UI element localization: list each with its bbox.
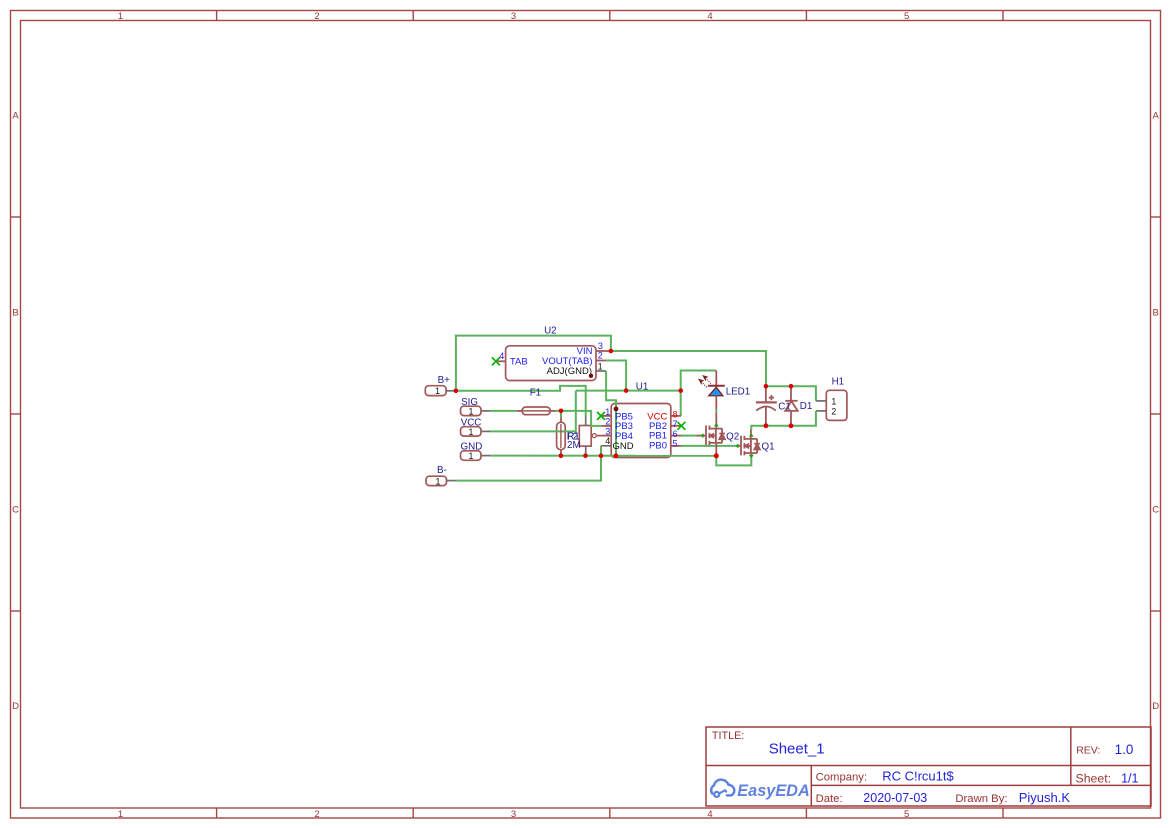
svg-text:Sheet:: Sheet: — [1076, 772, 1112, 786]
svg-text:B+: B+ — [438, 375, 451, 386]
svg-text:Drawn By:: Drawn By: — [955, 793, 1007, 805]
svg-text:REV:: REV: — [1076, 744, 1100, 756]
svg-text:D1: D1 — [800, 401, 813, 412]
svg-text:GND: GND — [461, 442, 483, 453]
svg-text:1: 1 — [436, 476, 441, 486]
svg-text:4: 4 — [707, 11, 712, 22]
svg-text:LED1: LED1 — [726, 387, 751, 398]
svg-text:C1: C1 — [778, 402, 791, 413]
svg-text:B: B — [1153, 308, 1159, 319]
svg-text:2: 2 — [598, 350, 603, 360]
svg-text:H1: H1 — [832, 377, 845, 388]
svg-text:EasyEDA: EasyEDA — [737, 782, 809, 800]
svg-text:Q2: Q2 — [726, 432, 739, 443]
svg-text:2: 2 — [605, 417, 610, 427]
svg-text:1.0: 1.0 — [1115, 742, 1134, 757]
svg-text:B: B — [12, 308, 18, 319]
svg-text:Q1: Q1 — [762, 441, 775, 452]
svg-text:5: 5 — [904, 11, 909, 22]
svg-text:VCC: VCC — [647, 411, 667, 422]
svg-text:1/1: 1/1 — [1121, 772, 1138, 786]
svg-text:3: 3 — [511, 11, 516, 22]
svg-text:4: 4 — [605, 436, 610, 446]
svg-text:Sheet_1: Sheet_1 — [769, 740, 825, 757]
svg-text:ADJ(GND): ADJ(GND) — [547, 366, 592, 377]
svg-text:TAB: TAB — [510, 356, 528, 367]
svg-text:A: A — [1153, 111, 1160, 122]
svg-text:3: 3 — [605, 426, 610, 436]
svg-text:5: 5 — [673, 438, 678, 448]
svg-text:C: C — [12, 504, 19, 515]
svg-text:PB0: PB0 — [649, 440, 667, 451]
svg-text:B-: B- — [437, 465, 447, 476]
svg-text:GND: GND — [613, 441, 634, 452]
svg-text:4: 4 — [707, 809, 712, 820]
svg-text:4: 4 — [499, 351, 504, 361]
svg-text:2: 2 — [314, 11, 319, 22]
svg-text:8: 8 — [673, 409, 678, 419]
svg-text:VCC: VCC — [461, 418, 482, 429]
svg-text:1: 1 — [118, 809, 123, 820]
svg-text:U2: U2 — [544, 326, 557, 337]
svg-text:5: 5 — [904, 809, 909, 820]
svg-text:TITLE:: TITLE: — [712, 730, 744, 742]
svg-text:6: 6 — [673, 429, 678, 439]
svg-text:2M: 2M — [567, 440, 581, 451]
svg-text:SIG: SIG — [461, 397, 478, 408]
svg-text:2: 2 — [831, 406, 836, 416]
svg-text:1: 1 — [605, 407, 610, 417]
svg-text:D: D — [12, 701, 19, 712]
svg-text:1: 1 — [598, 362, 603, 372]
svg-text:U1: U1 — [636, 381, 649, 392]
svg-text:A: A — [12, 111, 19, 122]
svg-text:Piyush.K: Piyush.K — [1019, 790, 1071, 805]
svg-text:D: D — [1152, 701, 1159, 712]
svg-text:1: 1 — [831, 396, 836, 406]
svg-text:3: 3 — [511, 809, 516, 820]
svg-text:7: 7 — [673, 419, 678, 429]
svg-text:1: 1 — [118, 11, 123, 22]
svg-text:1: 1 — [435, 386, 440, 396]
svg-text:2: 2 — [314, 809, 319, 820]
svg-text:RC C!rcu1t$: RC C!rcu1t$ — [882, 768, 954, 783]
svg-text:Date:: Date: — [816, 793, 843, 805]
svg-text:2020-07-03: 2020-07-03 — [863, 791, 927, 805]
svg-text:C: C — [1152, 504, 1159, 515]
svg-text:Company:: Company: — [816, 771, 868, 783]
svg-text:F1: F1 — [530, 387, 541, 398]
